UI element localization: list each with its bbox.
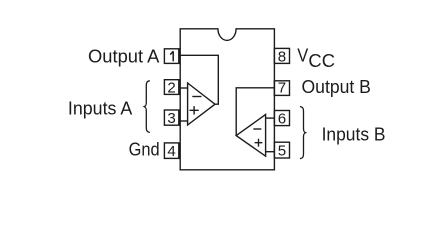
- svg-text:Gnd: Gnd: [129, 139, 160, 160]
- brace for Inputs A: [144, 81, 150, 133]
- wire pin3 to op-amp A non-inverting input: [179, 120, 188, 122]
- wire pin2 to op-amp A inverting input: [179, 87, 188, 89]
- pin 4 box: [164, 143, 178, 159]
- pin 3 box: [164, 110, 178, 125]
- op-amp U1B triangle: [236, 115, 265, 157]
- minus sign op-amp B: [253, 128, 261, 130]
- pin 6 box: [274, 111, 289, 126]
- svg-text:Inputs A: Inputs A: [68, 97, 133, 118]
- svg-text:4: 4: [167, 143, 175, 160]
- svg-text:7: 7: [278, 79, 286, 96]
- svg-text:Output B: Output B: [302, 76, 371, 97]
- op-amp U1A triangle: [188, 83, 215, 125]
- svg-text:5: 5: [278, 142, 286, 159]
- pin 2 box: [164, 80, 178, 95]
- wire pin5 to op-amp B non-inverting input: [266, 151, 275, 153]
- wire pin1 to op-amp A output: [179, 55, 219, 104]
- wire pin6 to op-amp B inverting input: [266, 117, 275, 119]
- pin 8 box: [274, 48, 289, 63]
- plus sign op-amp B: [255, 139, 263, 147]
- pin 5 box: [274, 142, 289, 158]
- svg-text:V: V: [297, 45, 309, 66]
- svg-text:Inputs B: Inputs B: [322, 123, 386, 144]
- pin number 1: [170, 51, 173, 61]
- svg-text:3: 3: [167, 110, 175, 127]
- svg-text:CC: CC: [308, 50, 335, 71]
- svg-text:6: 6: [278, 111, 286, 128]
- IC package U1 (8-pin DIP outline with index notch): [180, 29, 274, 170]
- brace for Inputs B: [300, 107, 306, 159]
- svg-text:Output A: Output A: [88, 45, 160, 66]
- wire pin7 to op-amp B output: [236, 88, 274, 136]
- svg-text:8: 8: [278, 49, 286, 66]
- pin 1 box: [164, 49, 178, 64]
- pin 7 box: [274, 81, 289, 96]
- plus sign op-amp A: [190, 106, 199, 114]
- svg-text:2: 2: [167, 79, 175, 96]
- minus sign op-amp A: [192, 96, 201, 98]
